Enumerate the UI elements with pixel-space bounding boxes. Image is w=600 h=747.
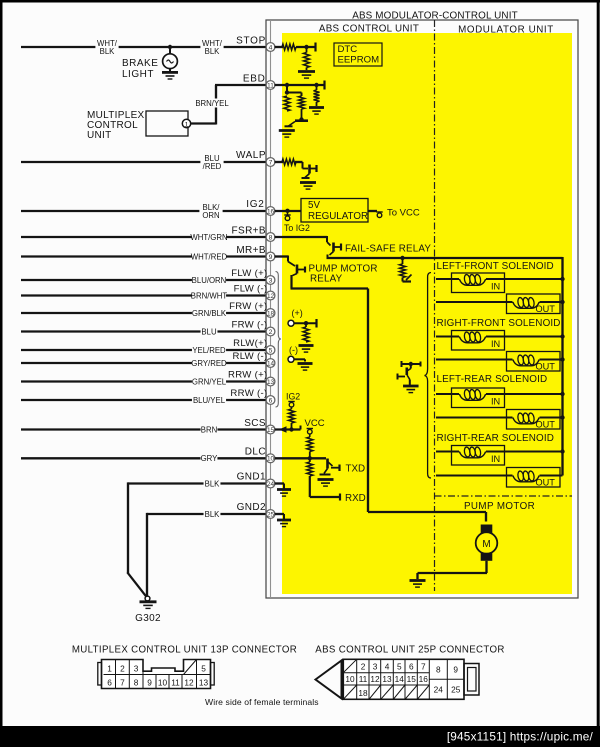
tbar stop <box>314 43 316 52</box>
svg-text:GRY: GRY <box>201 454 219 463</box>
wire label GRY/RED RLW (-) <box>191 358 227 368</box>
svg-text:WALP: WALP <box>236 150 266 161</box>
wire label WHT/BLK right <box>200 38 223 57</box>
svg-text:24: 24 <box>267 481 275 488</box>
svg-text:11: 11 <box>267 82 274 89</box>
13P connector pin numbers <box>107 663 208 687</box>
wire label GRY DLC <box>201 453 219 463</box>
svg-text:IN: IN <box>491 397 500 407</box>
svg-text:18: 18 <box>267 310 275 317</box>
svg-text:15: 15 <box>407 674 417 684</box>
svg-text:RRW (+): RRW (+) <box>228 369 268 380</box>
svg-text:4: 4 <box>269 44 273 51</box>
svg-text:GRN/BLK: GRN/BLK <box>192 309 227 318</box>
5V regulator box <box>301 199 368 223</box>
svg-text:8: 8 <box>134 677 139 687</box>
svg-text:BLK: BLK <box>205 479 221 488</box>
wire label BLU FRW (-) <box>201 326 218 336</box>
node left-rear OUT bus <box>560 415 564 419</box>
svg-text:YEL/RED: YEL/RED <box>192 346 226 355</box>
ground stop <box>298 72 315 79</box>
pump motor M <box>476 525 498 561</box>
svg-text:STOP: STOP <box>236 36 266 47</box>
pin 14 <box>266 359 275 368</box>
svg-text:7: 7 <box>269 159 273 166</box>
terminal sensor (-) <box>288 356 294 362</box>
divider dash-dot line modulator <box>434 20 436 591</box>
wire label BLU/ORN FLW (+) <box>192 275 227 285</box>
ground walp <box>300 183 316 190</box>
svg-text:To VCC: To VCC <box>387 208 420 219</box>
pin 24 <box>266 479 275 488</box>
node right-rear IN bus <box>560 449 564 453</box>
wire ebd branch <box>287 93 302 97</box>
svg-text:9: 9 <box>269 254 273 261</box>
divider dash-dot line pump motor <box>435 495 573 497</box>
pin 4 <box>266 43 275 52</box>
pin 16 <box>266 207 275 216</box>
svg-text:2: 2 <box>269 329 273 336</box>
wire FRW (+) GRN/BLK <box>21 312 266 314</box>
13P connector left tab <box>98 663 102 686</box>
pin label RLW (-) <box>233 351 268 362</box>
svg-text:DTC: DTC <box>338 44 358 55</box>
label 5V REGULATOR <box>308 200 368 222</box>
svg-text:RLW (-): RLW (-) <box>233 351 268 362</box>
label MULTIPLEX CONTROL UNIT <box>87 110 145 141</box>
transistor txd <box>320 459 340 475</box>
label G302 <box>135 613 161 624</box>
coil right-front OUT <box>513 355 540 366</box>
relay contact <box>403 275 412 282</box>
pin label IG2 <box>246 199 264 210</box>
wire label BLU/RED <box>200 153 223 172</box>
svg-text:2: 2 <box>361 662 366 672</box>
pin 3 <box>266 276 275 285</box>
label LEFT-FRONT SOLENOID <box>437 261 554 272</box>
wire MR+B WHT/RED <box>21 255 266 257</box>
pin 25 <box>266 510 275 519</box>
ground solenoid driver <box>403 386 419 393</box>
border frame top <box>0 0 600 3</box>
25P connector grid <box>343 659 464 699</box>
label To VCC <box>387 208 420 219</box>
wire label BRN SCS <box>201 424 218 434</box>
ground txd <box>318 480 334 487</box>
svg-text:3: 3 <box>373 662 378 672</box>
node right-front OUT bus <box>560 357 564 361</box>
svg-text:18: 18 <box>358 688 368 698</box>
svg-text:13: 13 <box>199 677 209 687</box>
pin 8 <box>266 233 275 242</box>
wire ebd drop <box>286 85 288 93</box>
svg-text:MULTIPLEX CONTROL UNIT 13P CON: MULTIPLEX CONTROL UNIT 13P CONNECTOR <box>72 645 297 656</box>
solenoid left-front IN box <box>452 273 505 293</box>
label IN left-rear <box>491 397 500 407</box>
wire right-front OUT <box>436 359 563 361</box>
transistor ebd <box>285 121 309 127</box>
wire STOP WHT/BLK <box>21 46 266 48</box>
wire label BRN/WHT FLW (-) <box>191 290 228 300</box>
svg-text:M: M <box>482 539 490 550</box>
svg-text:RIGHT-REAR SOLENOID: RIGHT-REAR SOLENOID <box>437 433 555 444</box>
pin label RRW (-) <box>230 388 267 399</box>
connector column line <box>270 20 272 598</box>
wire pump motor to ground <box>418 561 488 579</box>
svg-text:12: 12 <box>267 293 275 300</box>
wire FRW (-) BLU <box>21 330 266 332</box>
svg-text:10: 10 <box>267 456 275 463</box>
pin 6 <box>266 396 275 405</box>
wire sensor (-) <box>294 359 305 361</box>
wire BRN/YEL <box>191 85 266 125</box>
wire RRW (-) BLU/YEL <box>21 399 266 401</box>
svg-text:2: 2 <box>120 663 125 673</box>
node ebd right <box>314 83 318 87</box>
label sensor (-) <box>289 345 298 355</box>
wire FLW (-) BRN/WHT <box>21 294 266 296</box>
pin 11 <box>266 81 275 90</box>
coil left-rear OUT <box>513 413 540 424</box>
svg-text:25: 25 <box>451 685 461 695</box>
flag to ig2 <box>284 213 290 221</box>
tick scs end <box>300 426 302 430</box>
wire stop internal <box>275 46 284 48</box>
wire label YEL/RED RLW(+) <box>192 345 226 355</box>
wire label BLK GND2 <box>204 509 221 519</box>
svg-text:9: 9 <box>147 677 152 687</box>
svg-text:IG2: IG2 <box>246 199 264 210</box>
wire RLW(+) YEL/RED <box>21 349 266 351</box>
svg-text:Wire side of female terminals: Wire side of female terminals <box>205 697 319 707</box>
node relay coil <box>400 256 404 260</box>
solenoid left-rear IN box <box>452 388 505 408</box>
svg-text:VCC: VCC <box>305 418 325 429</box>
svg-text:16: 16 <box>419 674 429 684</box>
svg-text:9: 9 <box>453 665 458 675</box>
node right-front IN bus <box>560 334 564 338</box>
solenoid right-rear IN box <box>452 446 505 466</box>
wire GND2 BLK <box>147 513 266 515</box>
wire label WHT/BLK left <box>95 38 118 57</box>
pin label FLW (+) <box>231 268 267 279</box>
svg-text:PUMP MOTOR: PUMP MOTOR <box>464 501 535 512</box>
svg-text:BLK: BLK <box>100 47 116 56</box>
wire SCS BRN <box>21 428 266 430</box>
svg-text:3: 3 <box>269 277 273 284</box>
svg-text:BRN/WHT: BRN/WHT <box>191 291 228 300</box>
resistor ebd mid <box>299 96 305 119</box>
svg-text:FRW (-): FRW (-) <box>231 319 267 330</box>
svg-text:OUT: OUT <box>536 478 556 488</box>
pin label FLW (-) <box>234 283 268 294</box>
svg-text:FAIL-SAFE RELAY: FAIL-SAFE RELAY <box>345 244 431 255</box>
brake light bulb <box>163 49 178 71</box>
solenoid right-rear OUT box <box>507 468 561 488</box>
13P connector body <box>102 660 211 689</box>
13P connector right tab <box>211 663 215 686</box>
svg-text:SCS: SCS <box>244 418 266 429</box>
node stop <box>304 45 308 49</box>
svg-text:RLW(+): RLW(+) <box>233 338 267 349</box>
header ABS CONTROL UNIT <box>319 24 419 35</box>
pin label STOP <box>236 36 266 47</box>
svg-text:RELAY: RELAY <box>310 274 343 285</box>
node sensor <box>304 321 308 325</box>
flag to vcc <box>376 212 382 218</box>
svg-text:RIGHT-FRONT SOLENOID: RIGHT-FRONT SOLENOID <box>437 318 561 329</box>
solenoid right-front OUT box <box>507 352 561 372</box>
label IN right-front <box>491 339 500 349</box>
pin label RRW (+) <box>228 369 268 380</box>
label LEFT-REAR SOLENOID <box>437 374 548 385</box>
svg-text:GND1: GND1 <box>237 472 266 483</box>
multiplex control unit box <box>146 111 188 136</box>
25P connector arrow <box>316 661 342 699</box>
transistor fail-safe relay <box>328 243 342 259</box>
svg-text:BRAKE: BRAKE <box>122 58 158 69</box>
svg-text:IG2: IG2 <box>286 392 300 402</box>
svg-text:OUT: OUT <box>536 420 556 430</box>
label IN right-rear <box>491 454 500 464</box>
svg-text:7: 7 <box>120 677 125 687</box>
resistor ebd left <box>284 96 290 111</box>
coil left-front IN <box>459 274 486 285</box>
svg-text:14: 14 <box>267 360 275 367</box>
svg-text:6: 6 <box>409 662 414 672</box>
svg-text:3: 3 <box>134 663 139 673</box>
svg-text:BLK: BLK <box>205 510 221 519</box>
svg-text:8: 8 <box>436 665 441 675</box>
label To IG2 <box>284 223 310 233</box>
svg-text:25: 25 <box>267 511 275 518</box>
svg-text:EBD: EBD <box>243 74 266 85</box>
ground gnd2 internal <box>275 514 292 527</box>
svg-text:4: 4 <box>385 662 390 672</box>
svg-text:11: 11 <box>359 674 368 684</box>
pin label FRW (-) <box>231 319 267 330</box>
label OUT left-front <box>536 304 556 314</box>
coil right-front IN <box>459 332 486 343</box>
svg-text:BLU/YEL: BLU/YEL <box>193 396 226 405</box>
tbar sensor <box>315 319 317 328</box>
resistor ebd right <box>314 85 320 106</box>
svg-text:BLU: BLU <box>201 327 217 336</box>
coil left-front OUT <box>513 297 540 308</box>
wire FLW (+) BLU/ORN <box>21 279 266 281</box>
svg-text:WHT/GRN: WHT/GRN <box>190 233 227 242</box>
resistor vcc dlc <box>307 434 313 459</box>
wire mrb internal <box>275 256 296 267</box>
25P connector body <box>343 659 464 699</box>
svg-text:IN: IN <box>491 339 500 349</box>
pin 9 <box>266 252 275 261</box>
wire right-rear IN <box>436 451 563 453</box>
svg-text:5: 5 <box>201 663 206 673</box>
wire relay output bus <box>327 257 563 259</box>
wire rxd <box>310 494 340 501</box>
svg-text:DLC: DLC <box>245 447 266 458</box>
wire left-rear IN <box>436 393 563 395</box>
yellow highlight area <box>282 33 572 594</box>
header MODULATOR UNIT <box>458 25 554 36</box>
wire IG2 BLK/ORN <box>21 210 266 212</box>
wire RRW (+) GRN/YEL <box>21 380 266 382</box>
svg-text:14: 14 <box>395 674 405 684</box>
label BRAKE LIGHT <box>122 58 158 80</box>
svg-text:REGULATOR: REGULATOR <box>308 211 368 222</box>
DTC EEPROM box <box>334 43 382 66</box>
svg-text:UNIT: UNIT <box>87 130 112 141</box>
ground pump motor <box>410 581 426 588</box>
label RIGHT-FRONT SOLENOID <box>437 318 561 329</box>
wire left-rear OUT <box>436 417 563 419</box>
relay coil resistor <box>400 258 406 278</box>
ground sensor plus <box>299 346 314 353</box>
wire left-front OUT <box>436 301 563 303</box>
svg-text:FLW (-): FLW (-) <box>234 283 268 294</box>
wire label BLK/ORN <box>199 202 222 221</box>
node brake light tap <box>168 45 172 49</box>
svg-text:5: 5 <box>269 347 273 354</box>
wire ebd internal <box>275 84 325 86</box>
label IN left-front <box>491 282 500 292</box>
wire label BRN/YEL <box>195 99 229 109</box>
label OUT right-rear <box>536 478 556 488</box>
solenoid left-front OUT box <box>507 294 561 314</box>
wire GND2 down-run <box>146 513 148 598</box>
wire FSR+B WHT/GRN <box>21 236 266 238</box>
label VCC <box>305 418 325 429</box>
svg-text:6: 6 <box>269 397 273 404</box>
svg-text:BLU/ORN: BLU/ORN <box>192 276 227 285</box>
pin 5 <box>266 346 275 355</box>
svg-text:RRW (-): RRW (-) <box>230 388 267 399</box>
svg-text:EEPROM: EEPROM <box>338 55 380 66</box>
wire label WHT/GRN FSR+B <box>190 232 227 242</box>
node ebd collector <box>299 117 303 121</box>
wire right-front IN <box>436 336 563 338</box>
svg-text:12: 12 <box>370 674 380 684</box>
svg-text:BLK: BLK <box>205 47 221 56</box>
svg-text:To IG2: To IG2 <box>284 223 310 233</box>
wire right-rear OUT <box>436 475 563 477</box>
wire stop to node <box>296 46 315 48</box>
pin label EBD <box>243 74 266 85</box>
label DTC EEPROM <box>338 44 380 66</box>
node ebd lower <box>285 90 289 94</box>
svg-text:GRY/RED: GRY/RED <box>191 359 227 368</box>
svg-text:RXD: RXD <box>345 493 366 504</box>
coil left-rear IN <box>459 389 486 400</box>
svg-text:ABS CONTROL UNIT: ABS CONTROL UNIT <box>319 24 419 35</box>
svg-text:FLW (+): FLW (+) <box>231 268 267 279</box>
wire left-front IN <box>436 278 563 280</box>
label PUMP MOTOR RELAY <box>309 264 378 285</box>
pin label SCS <box>244 418 266 429</box>
pin 12 <box>266 291 275 300</box>
svg-text:G302: G302 <box>135 613 161 624</box>
wire sensor (+) <box>294 322 317 324</box>
solenoid left-rear OUT box <box>507 410 561 430</box>
label RIGHT-REAR SOLENOID <box>437 433 555 444</box>
13P connector grid <box>104 660 211 689</box>
svg-text:WHT/RED: WHT/RED <box>191 252 228 261</box>
svg-text:GRN/YEL: GRN/YEL <box>192 377 227 386</box>
label OUT left-rear <box>536 420 556 430</box>
label PUMP MOTOR <box>464 501 535 512</box>
svg-text:GND2: GND2 <box>237 502 266 513</box>
wire walp internal <box>275 161 284 163</box>
resistor stop series <box>282 44 296 50</box>
pin label WALP <box>236 150 266 161</box>
wire label BLU/YEL RRW (-) <box>192 395 226 405</box>
svg-text:LEFT-REAR SOLENOID: LEFT-REAR SOLENOID <box>437 374 548 385</box>
wire scs internal <box>275 428 301 430</box>
svg-text:/RED: /RED <box>203 162 222 171</box>
title abs connector <box>315 645 504 656</box>
svg-text:5: 5 <box>397 662 402 672</box>
svg-text:[945x1151] https://upic.me/: [945x1151] https://upic.me/ <box>447 730 594 744</box>
wire label GRN/BLK FRW (+) <box>192 308 227 318</box>
pin label GND2 <box>237 502 266 513</box>
wire dlc internal <box>275 457 327 459</box>
wire fsr internal <box>275 236 331 246</box>
node ig2 <box>285 209 289 213</box>
pin label RLW(+) <box>233 338 267 349</box>
svg-text:IN: IN <box>491 454 500 464</box>
pin 15 <box>266 425 275 434</box>
ground ebd right <box>309 108 324 115</box>
label OUT right-front <box>536 362 556 372</box>
wire RLW (-) GRY/RED <box>21 362 266 364</box>
node scs <box>289 427 293 431</box>
resistor sensor <box>303 323 309 342</box>
solenoid right-front IN box <box>452 331 505 351</box>
coil right-rear OUT <box>513 471 540 482</box>
wire GND1 BLK <box>128 482 266 484</box>
node ebd left <box>285 83 289 87</box>
svg-text:1: 1 <box>185 121 189 128</box>
wire GND1 down-run <box>127 482 148 598</box>
transistor walp <box>302 165 317 179</box>
svg-text:6: 6 <box>107 677 112 687</box>
pin label MR+B <box>236 245 266 256</box>
resistor dlc rxd <box>307 458 313 497</box>
svg-text:(+): (+) <box>292 308 303 318</box>
wire label GRN/YEL RRW (+) <box>192 376 227 386</box>
title multiplex connector <box>72 645 297 656</box>
title ABS MODULATOR-CONTROL UNIT <box>352 11 518 22</box>
multiplex pin 1 <box>182 119 190 128</box>
svg-text:ABS MODULATOR-CONTROL UNIT: ABS MODULATOR-CONTROL UNIT <box>352 11 518 22</box>
right solenoid bus <box>561 257 563 476</box>
node left-front IN bus <box>560 277 564 281</box>
svg-text:10: 10 <box>158 677 168 687</box>
ground brake light <box>162 72 178 79</box>
svg-text:24: 24 <box>434 685 444 695</box>
svg-text:ORN: ORN <box>202 211 219 220</box>
svg-text:10: 10 <box>345 674 355 684</box>
label IG2 internal <box>286 392 300 402</box>
wire walp to transistor <box>295 162 308 169</box>
border frame right <box>597 0 600 747</box>
node left-front OUT bus <box>560 300 564 304</box>
terminal sensor (+) <box>288 320 294 326</box>
svg-text:7: 7 <box>421 662 426 672</box>
wire vcc out <box>368 210 377 212</box>
svg-text:16: 16 <box>267 208 275 215</box>
